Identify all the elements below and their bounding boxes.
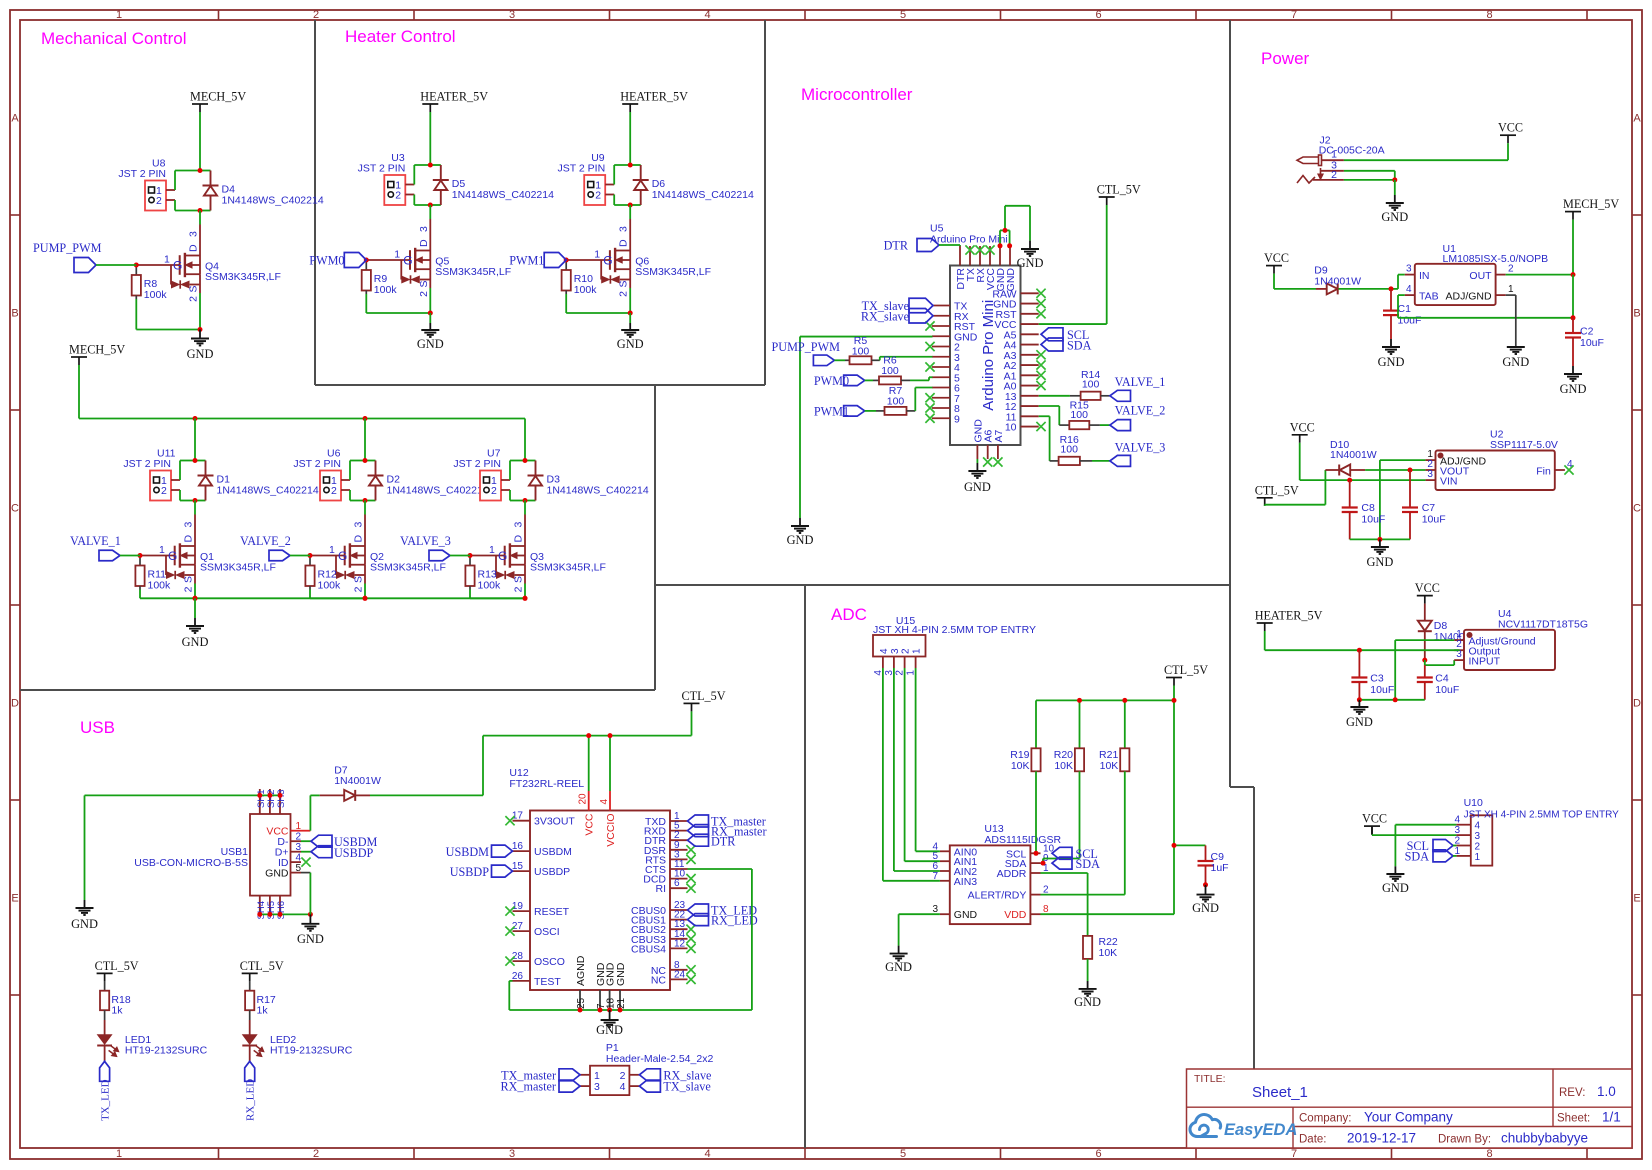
svg-text:Company:: Company: [1299,1113,1351,1125]
svg-text:26: 26 [512,971,524,982]
svg-text:GND: GND [1017,256,1044,270]
USB1 shield pins bottom SH4-SH6 [259,896,261,915]
LED18 HT19-2132SURC [104,1010,106,1020]
svg-text:ALERT/RDY: ALERT/RDY [968,890,1027,902]
U5 no-connect marks right [1036,289,1045,298]
net flag VALVE_1 (micro) [1110,390,1131,401]
svg-text:2: 2 [313,9,319,21]
svg-text:D: D [11,698,19,710]
svg-text:GND: GND [71,917,98,931]
resistor R16 100 [1050,460,1059,462]
svg-text:1: 1 [394,249,400,261]
net flag RX_master (u12) [688,825,709,837]
svg-text:OSCI: OSCI [534,926,560,938]
wire source to ground rail [199,293,201,330]
svg-text:A: A [1633,113,1641,125]
wire Adjust/Ground to gnd rail [1395,639,1454,641]
svg-text:S: S [418,281,430,288]
ground U13 [898,946,900,954]
svg-text:10K: 10K [1099,947,1118,959]
wire drain [524,501,526,515]
junction adj gnd [1393,697,1398,702]
svg-text:CTL_5V: CTL_5V [95,959,139,973]
resistor R15 100 [1059,424,1069,426]
net flag DTR (micro) [917,239,939,252]
svg-text:GND: GND [182,635,209,649]
junction C9 bottom [1203,882,1208,887]
svg-text:JST 2 PIN: JST 2 PIN [118,168,166,180]
wire drain [364,501,366,515]
svg-text:TX_LED: TX_LED [99,1079,111,1121]
svg-text:2: 2 [156,195,162,207]
U5 left pins [932,305,950,307]
wire D8 to INPUT [1424,660,1426,665]
capacitor C2 10uF [1572,318,1574,333]
junction bottom [428,203,433,208]
svg-text:E: E [1633,893,1640,905]
svg-text:GND: GND [265,868,289,880]
wire source to ground rail [364,584,366,599]
svg-text:2: 2 [418,291,430,297]
net flag PUMP_PWM [74,258,96,273]
svg-text:HEATER_5V: HEATER_5V [1255,609,1323,623]
svg-text:VALVE_1: VALVE_1 [70,534,121,548]
capacitor C8 10uF [1349,480,1351,507]
wire HEATER_5V to Output [1264,631,1266,650]
wire OUT down to C2 [1572,275,1574,318]
svg-text:Fin: Fin [1536,465,1551,477]
net flag PWM1 [544,253,566,268]
wire D+ to flag [301,851,311,853]
U12 no-connect left [505,816,514,825]
wire GND left pin [800,336,933,338]
junction source-ground [628,311,633,316]
svg-text:NCV1117DT18T5G: NCV1117DT18T5G [1498,619,1588,631]
wire J2 pin2 [1344,179,1395,181]
svg-text:D: D [353,535,365,543]
wire VDD supply [1173,700,1175,914]
junction top [193,458,198,463]
wire D9 to IN [1339,288,1392,290]
svg-text:1k: 1k [257,1005,269,1017]
svg-text:USBDP: USBDP [450,865,490,879]
svg-text:C1: C1 [1398,303,1412,315]
svg-text:2: 2 [313,1148,319,1160]
net flag USBDP (usb1) [311,846,332,858]
svg-text:TX_slave: TX_slave [663,1080,710,1094]
power flag HEATER_5V (u4) [1257,622,1273,624]
wire pin11 to R16 [1039,415,1050,417]
wire U4 ground rail [1359,699,1424,701]
U4 pins [1454,639,1464,641]
svg-text:1N4148WS_C402214: 1N4148WS_C402214 [547,485,649,497]
power flag MECH_5V [192,103,208,105]
svg-text:4: 4 [599,799,610,805]
wire VCC down to VIN row [1299,443,1301,480]
svg-text:SDA: SDA [1067,339,1092,353]
svg-text:U10: U10 [1464,797,1483,809]
svg-text:5: 5 [296,863,302,874]
svg-text:GND: GND [1192,901,1219,915]
power flag CTL_5V (R18) [97,972,113,974]
wire drain [199,211,201,225]
connector P1 Header-Male-2.54_2x2 body [590,1066,629,1095]
svg-text:GND: GND [1560,382,1587,396]
svg-text:7: 7 [1291,1148,1297,1160]
net flag RX_LED (u12) [688,914,709,926]
wire D7 to CTL_5V rail [356,794,370,796]
svg-text:S: S [513,576,525,583]
svg-text:CTL_5V: CTL_5V [1255,483,1299,497]
svg-text:ADC: ADC [831,605,867,624]
wire U8 to rails [174,171,176,191]
wire VCC to pin3 [1371,826,1373,835]
IC U1 LM1085ISX-5.0/NOPB body [1415,264,1496,305]
wire ADJ/GND to ground [1506,294,1516,296]
power flag CTL_5V (adc) [1166,677,1182,679]
diode D3 1N4148WS_C402214 [525,460,536,462]
svg-text:S: S [353,576,365,583]
net flag VALVE_2 [269,550,290,561]
svg-text:D: D [418,239,430,247]
junction gate [364,258,369,263]
svg-text:3: 3 [509,9,515,21]
power flag VCC (u10) [1364,825,1380,827]
svg-text:HT19-2132SURC: HT19-2132SURC [125,1045,208,1057]
svg-text:HEATER_5V: HEATER_5V [620,90,688,104]
net flag VALVE_1 [99,550,120,561]
svg-text:C: C [11,503,19,515]
svg-text:PWM0: PWM0 [814,374,849,388]
EasyEDA logo [1190,1114,1221,1136]
net flag RX_master (p1) [559,1080,580,1092]
wire U15 to AIN pins [882,668,884,881]
wire pin12 to R15 [1039,405,1060,407]
svg-text:1N4148WS_C402214: 1N4148WS_C402214 [452,189,554,201]
svg-text:JST 2 PIN: JST 2 PIN [558,163,606,175]
svg-text:100: 100 [1070,409,1088,421]
wire MECH_5V to D4 [199,112,201,171]
svg-text:1N4148WS_C402214: 1N4148WS_C402214 [387,485,489,497]
net flag VALVE_3 [429,550,450,561]
wire CTL_5V rail [1173,686,1175,701]
resistor R6 100 [865,379,873,381]
svg-text:AGND: AGND [575,955,587,986]
wire R21 to ALERT/RDY [1124,771,1126,894]
junction bottom [523,498,528,503]
junction gate [468,553,473,558]
power flag CTL_5V (u12) [684,702,700,704]
section divider power left [1229,20,1231,787]
U12 left pins [513,820,531,822]
junction R19 SCL [1034,851,1039,856]
svg-text:A: A [11,113,19,125]
junction top [428,163,433,168]
svg-text:VALVE_3: VALVE_3 [400,534,451,548]
resistor R12 100k [309,556,311,566]
svg-text:3: 3 [296,842,302,853]
junction rail R21 [1122,698,1127,703]
net flag TX_master (u12) [688,815,709,827]
svg-text:PWM1: PWM1 [814,405,849,419]
svg-text:VALVE_3: VALVE_3 [1115,441,1166,455]
wire HEATER_5V down [429,112,431,165]
svg-text:1: 1 [1475,852,1481,863]
svg-text:2: 2 [620,1070,626,1082]
junction bottom [198,208,203,213]
wire DTR to pin [939,244,960,246]
svg-text:SSM3K345R,LF: SSM3K345R,LF [530,562,606,574]
svg-text:24: 24 [674,969,686,980]
wire USB1 GND pin [301,872,310,874]
svg-text:C7: C7 [1422,502,1436,514]
junction gate [138,553,143,558]
svg-text:1uF: 1uF [1211,862,1229,874]
svg-text:Date:: Date: [1299,1134,1327,1146]
svg-text:USBDM: USBDM [446,845,490,859]
junction gate [308,553,313,558]
ground R22 [1087,981,1089,989]
LED17 HT19-2132SURC [249,1010,251,1020]
wire CTS to ground rail [688,868,752,870]
svg-text:100k: 100k [574,284,598,296]
ground U5 top [1029,241,1031,249]
wire CTL_5V rail to U12 supplies [691,711,693,735]
svg-text:HT19-2132SURC: HT19-2132SURC [270,1045,353,1057]
section divider USB right / ADC left [804,585,806,1148]
resistor R20 10K [1079,700,1081,748]
svg-text:3: 3 [618,226,630,232]
resistor R19 10K [1035,700,1037,748]
svg-text:4: 4 [704,1148,710,1160]
junction bottom [628,203,633,208]
svg-text:D: D [513,535,525,543]
svg-text:USB: USB [80,718,115,737]
svg-text:GND: GND [297,932,324,946]
wire valve ground rail [195,597,525,599]
junction source-ground [428,311,433,316]
diode D1 1N4148WS_C402214 [195,460,206,462]
svg-text:10: 10 [1005,422,1017,434]
USB1 right pins [291,830,302,832]
svg-text:3: 3 [1427,469,1433,480]
U2 pins [1425,459,1435,461]
svg-text:21: 21 [616,997,627,1009]
svg-text:4: 4 [1475,821,1481,832]
svg-text:Power: Power [1261,49,1310,68]
junction OUT [1571,272,1576,277]
junction J2 gnd [1392,177,1397,182]
svg-text:10K: 10K [1054,760,1073,772]
resistor R22 10K [1083,936,1092,959]
svg-text:VCC: VCC [1498,121,1523,135]
U5 right pins [1021,292,1039,294]
power flag CTL_5V (micro) [1099,196,1115,198]
resistor R7 100 [865,410,876,412]
svg-text:3V3OUT: 3V3OUT [534,816,575,828]
svg-text:D: D [1633,698,1641,710]
svg-text:TEST: TEST [534,976,561,988]
svg-text:2: 2 [901,648,912,654]
svg-text:7: 7 [1291,9,1297,21]
resistor R11 100k [139,556,141,566]
power flag MECH_5V (power) [1565,211,1581,213]
svg-text:15: 15 [512,861,524,872]
svg-text:EasyEDA: EasyEDA [1224,1121,1297,1139]
diode D5 1N4148WS_C402214 [430,164,441,166]
U5 top pins [959,246,961,266]
svg-text:Header-Male-2.54_2x2: Header-Male-2.54_2x2 [606,1053,714,1065]
net flag SCL (u10) [1433,840,1453,852]
ground heater [629,313,631,323]
ground C1 [1390,339,1392,347]
svg-text:Heater Control: Heater Control [345,27,456,46]
svg-text:G: G [498,549,507,563]
svg-text:1.0: 1.0 [1597,1084,1616,1099]
ground U4 [1358,700,1360,707]
power flag MECH_5V (valve rail) [71,356,87,358]
capacitor C7 10uF [1409,470,1411,508]
svg-text:GND: GND [617,337,644,351]
svg-text:D: D [183,535,195,543]
wire shield rail top [85,794,281,796]
svg-text:3: 3 [1406,264,1412,275]
svg-text:PWM0: PWM0 [309,254,344,268]
wire R5 to pin 3 [879,357,881,361]
svg-text:D: D [618,239,630,247]
svg-text:1: 1 [296,821,302,832]
no-connect USB1 ID [301,858,310,867]
svg-text:100: 100 [852,346,870,358]
junction gate [564,258,569,263]
wire drain [629,205,631,219]
svg-text:JST XH 4-PIN 2.5MM TOP ENTRY: JST XH 4-PIN 2.5MM TOP ENTRY [1464,810,1620,821]
power flag VCC (u1) [1266,265,1282,267]
junction R20 SDA [1041,861,1046,866]
diode D9 1N4001W [1327,283,1338,294]
svg-text:SDA: SDA [1076,857,1101,871]
svg-text:C4: C4 [1435,673,1449,685]
wire TEST to ground rail [509,980,512,982]
svg-text:Mechanical Control: Mechanical Control [41,29,187,48]
svg-text:1: 1 [489,544,495,556]
svg-text:MECH_5V: MECH_5V [190,90,246,104]
connector U6 JST 2 PIN [320,471,341,501]
junction source-ground [193,596,198,601]
svg-text:CTL_5V: CTL_5V [682,689,726,703]
net flag SDA (micro) [1041,338,1063,351]
wire source to ground rail [194,584,196,599]
svg-text:3: 3 [188,231,200,237]
junction bottom [363,498,368,503]
svg-text:USB-CON-MICRO-B-5S: USB-CON-MICRO-B-5S [134,857,248,869]
svg-text:6: 6 [674,878,680,889]
svg-text:3: 3 [890,648,901,654]
net flag PUMP_PWM (micro) [813,355,834,366]
USB1 shield pins top SH1-SH3 [259,789,261,814]
ground micro left [799,518,801,526]
diode D4 1N4148WS_C402214 [200,170,211,172]
svg-text:SSM3K345R,LF: SSM3K345R,LF [200,562,276,574]
wire pin4 to gnd [1395,824,1456,826]
svg-text:G: G [168,549,177,563]
junction rail VDD column [1172,698,1177,703]
svg-text:CTL_5V: CTL_5V [1164,663,1208,677]
svg-text:VCC: VCC [584,813,596,836]
svg-text:JST 2 PIN: JST 2 PIN [293,458,341,470]
net flag TX_LED (u12) [688,904,709,916]
svg-text:FT232RL-REEL: FT232RL-REEL [509,778,584,790]
resistor R14 100 [1070,395,1081,397]
wire R22 to gnd [1087,959,1089,981]
svg-text:GND: GND [1381,210,1408,224]
svg-text:3: 3 [594,1081,600,1093]
resistor R5 100 [834,359,845,361]
transistor Q2 SSM3K345R,LF [310,555,345,557]
net flag TX_LED (usb) [104,1046,106,1062]
section divider mechanical/heater [314,20,316,385]
ground U1 adj [1507,346,1525,348]
U12 bottom pins [579,990,581,1010]
ground U12 [609,1010,611,1020]
junction top [198,168,203,173]
svg-text:C3: C3 [1370,673,1384,685]
svg-text:1N4001W: 1N4001W [1330,449,1377,461]
svg-text:1: 1 [116,1148,122,1160]
svg-text:E: E [11,893,18,905]
IC U13 ADS1115IDGSR body [950,845,1031,924]
junction C2 [1571,315,1576,320]
net flag PWM0 (micro) [844,375,865,386]
junction u12 gnd pins [578,1008,583,1013]
junction C8 [1347,478,1352,483]
svg-text:2: 2 [595,190,601,202]
svg-text:CTL_5V: CTL_5V [240,959,284,973]
junction U5 gnd pins [998,243,1003,248]
U13 right pins [1030,852,1040,854]
svg-text:GND: GND [417,337,444,351]
junction gate [134,263,139,268]
svg-text:10uF: 10uF [1422,514,1446,526]
svg-text:10K: 10K [1011,760,1030,772]
junction rail valve2 [363,416,368,421]
wire source to ground rail [524,584,526,599]
svg-text:3: 3 [513,522,525,528]
resistor R9 100k [365,260,367,270]
svg-text:1: 1 [594,249,600,261]
junction top [628,163,633,168]
IC U5 Arduino Pro Mini body [950,266,1021,446]
section divider microcontroller bottom / ADC top [655,584,1230,586]
svg-text:chubbybabyye: chubbybabyye [1501,1131,1588,1146]
wire D- to flag [301,840,311,842]
diode D6 1N4148WS_C402214 [630,164,641,166]
IC U12 FT232RL-REEL body [530,811,670,991]
svg-text:GND: GND [596,1023,623,1037]
power flag VCC (u2) [1292,434,1308,436]
svg-text:A7: A7 [993,429,1005,442]
svg-text:GND: GND [1074,995,1101,1009]
connector U8 JST 2 PIN [145,181,166,211]
net flag RX_slave [909,309,933,324]
svg-text:GND: GND [885,960,912,974]
wire drain [194,501,196,515]
junction C3 gnd [1357,697,1362,702]
junction D8 INPUT [1422,658,1427,663]
svg-text:4: 4 [879,648,890,654]
wire U5 bottom GND [976,459,978,463]
svg-text:DTR: DTR [711,835,736,849]
